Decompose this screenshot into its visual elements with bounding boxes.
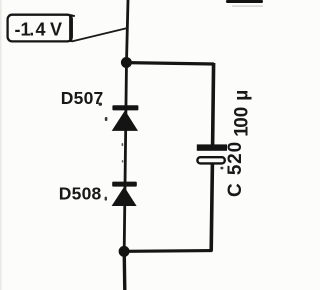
capacitor C520 (electrolytic) bbox=[197, 144, 227, 163]
svg-text:D507: D507 bbox=[61, 88, 104, 108]
wire leader from -1.4V label to node bbox=[72, 28, 128, 42]
wire right branch upper bbox=[213, 63, 214, 146]
svg-text:D508: D508 bbox=[59, 183, 102, 203]
value label 100µ bbox=[232, 90, 253, 137]
wire right branch lower bbox=[211, 164, 212, 251]
diode D508 bbox=[112, 182, 137, 206]
stray scan specks bbox=[99, 103, 224, 201]
wire bottom horizontal bbox=[124, 249, 213, 253]
scan edge shade left bbox=[0, 0, 2, 290]
cut-off label box bottom edge (top right) bbox=[226, 0, 263, 7]
label D507 bbox=[61, 88, 104, 108]
svg-text:100µ: 100µ bbox=[232, 90, 253, 137]
svg-text:-1.4V: -1.4V bbox=[15, 20, 63, 40]
diode D507 bbox=[112, 105, 139, 131]
wire top horizontal bbox=[126, 63, 214, 64]
label C520 bbox=[225, 142, 246, 197]
node junction bottom bbox=[119, 246, 130, 257]
svg-text:C520: C520 bbox=[225, 142, 246, 197]
net label -1.4V bbox=[8, 15, 75, 42]
label D508 bbox=[59, 183, 102, 203]
wire main vertical bbox=[124, 0, 128, 290]
node junction top bbox=[121, 57, 132, 68]
